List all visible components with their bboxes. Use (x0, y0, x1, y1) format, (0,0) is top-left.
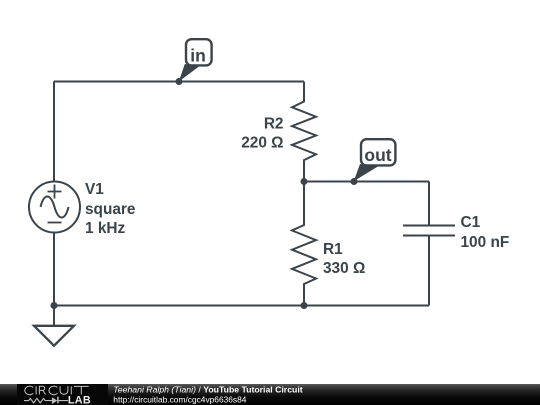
svg-text:C1: C1 (461, 214, 481, 231)
svg-text:LAB: LAB (68, 395, 91, 405)
svg-text:1 kHz: 1 kHz (85, 220, 126, 237)
svg-text:100 nF: 100 nF (461, 234, 510, 251)
svg-text:330 Ω: 330 Ω (323, 260, 365, 277)
svg-text:in: in (190, 45, 206, 65)
svg-text:220 Ω: 220 Ω (241, 135, 283, 152)
svg-text:out: out (364, 145, 391, 165)
svg-text:R1: R1 (323, 241, 343, 258)
svg-text:square: square (85, 201, 136, 218)
svg-text:V1: V1 (85, 181, 104, 198)
svg-text:http://circuitlab.com/cgc4vp66: http://circuitlab.com/cgc4vp6636s84 (113, 395, 246, 405)
svg-text:R2: R2 (264, 116, 284, 133)
svg-text:Teehani Ralph (Tiani) / YouTub: Teehani Ralph (Tiani) / YouTube Tutorial… (113, 385, 302, 395)
